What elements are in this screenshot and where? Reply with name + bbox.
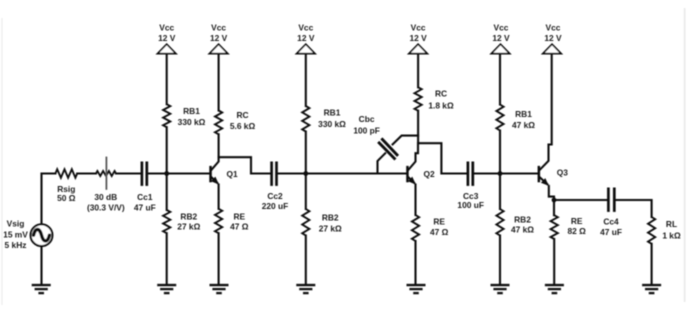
svg-text:12 V: 12 V (297, 33, 315, 43)
svg-text:Vsig: Vsig (7, 219, 25, 229)
svg-text:RC: RC (435, 88, 447, 98)
svg-text:Cc1: Cc1 (137, 192, 153, 202)
svg-text:330 kΩ: 330 kΩ (318, 119, 346, 129)
svg-text:RL: RL (666, 219, 677, 229)
svg-text:Q1: Q1 (227, 169, 239, 179)
svg-text:RB1: RB1 (183, 106, 200, 116)
svg-text:RB1: RB1 (515, 109, 532, 119)
svg-text:47 kΩ: 47 kΩ (511, 225, 534, 235)
svg-text:Vcc: Vcc (159, 23, 174, 33)
svg-text:47 Ω: 47 Ω (230, 222, 249, 232)
svg-text:RB2: RB2 (322, 212, 339, 222)
svg-text:47 uF: 47 uF (134, 202, 156, 212)
svg-text:12 V: 12 V (492, 33, 510, 43)
svg-text:30 dB: 30 dB (94, 192, 117, 202)
svg-text:1.8 kΩ: 1.8 kΩ (428, 101, 454, 111)
svg-text:12 V: 12 V (409, 33, 427, 43)
svg-text:RE: RE (433, 217, 445, 227)
svg-text:27 kΩ: 27 kΩ (319, 223, 342, 233)
svg-text:RE: RE (233, 211, 245, 221)
svg-text:5 kHz: 5 kHz (5, 240, 27, 250)
svg-text:RE: RE (571, 216, 583, 226)
svg-text:Cbc: Cbc (359, 114, 375, 124)
svg-text:100 uF: 100 uF (457, 200, 484, 210)
svg-text:Cc2: Cc2 (267, 191, 283, 201)
svg-text:RB2: RB2 (180, 211, 197, 221)
svg-text:82 Ω: 82 Ω (568, 226, 587, 236)
svg-text:RC: RC (236, 110, 248, 120)
svg-text:27 kΩ: 27 kΩ (177, 222, 200, 232)
svg-text:RB1: RB1 (324, 108, 341, 118)
svg-text:Vcc: Vcc (546, 23, 561, 33)
svg-text:1 kΩ: 1 kΩ (662, 230, 681, 240)
svg-text:5.6 kΩ: 5.6 kΩ (230, 121, 256, 131)
svg-text:Vcc: Vcc (494, 23, 509, 33)
svg-text:RB2: RB2 (514, 215, 531, 225)
svg-text:47 uF: 47 uF (600, 227, 622, 237)
svg-text:Q3: Q3 (557, 168, 569, 178)
svg-text:Vcc: Vcc (298, 23, 313, 33)
svg-text:220 uF: 220 uF (262, 201, 289, 211)
svg-text:15 mV: 15 mV (3, 229, 28, 239)
svg-text:Vcc: Vcc (411, 23, 426, 33)
svg-text:50 Ω: 50 Ω (57, 193, 76, 203)
svg-text:12 V: 12 V (544, 33, 562, 43)
svg-text:12 V: 12 V (158, 33, 176, 43)
svg-text:(30.3 V/V): (30.3 V/V) (87, 202, 125, 212)
svg-text:Q2: Q2 (424, 169, 436, 179)
svg-text:12 V: 12 V (210, 33, 228, 43)
svg-text:47 kΩ: 47 kΩ (512, 120, 535, 130)
svg-text:47 Ω: 47 Ω (430, 227, 449, 237)
svg-text:100 pF: 100 pF (353, 126, 380, 136)
svg-text:Vcc: Vcc (211, 23, 226, 33)
svg-text:330 kΩ: 330 kΩ (178, 117, 206, 127)
svg-text:Cc4: Cc4 (603, 216, 619, 226)
